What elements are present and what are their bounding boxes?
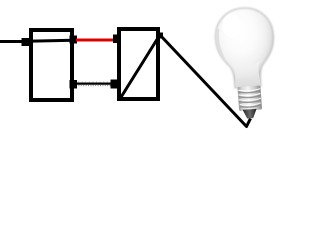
component box B2 xyxy=(119,29,158,99)
wire: hatched wire T4-T5 xyxy=(75,82,113,86)
glass rim xyxy=(214,6,277,89)
glass neck shading xyxy=(231,60,263,88)
terminal T5 (box2 left bottom) xyxy=(111,80,119,89)
wire: left feed wire xyxy=(0,40,24,43)
base tip xyxy=(243,109,258,119)
terminal T6 (box2 top right corner) xyxy=(157,33,163,39)
wire: diagonal to lamp xyxy=(161,36,251,127)
wire: diagonal inside box2 xyxy=(121,36,160,99)
terminal T2 (box1 right top) xyxy=(70,36,78,44)
glass envelope xyxy=(214,6,277,89)
glass left rim shade xyxy=(216,28,226,60)
wire: red wire T2-T3 xyxy=(76,39,115,42)
glass highlight xyxy=(222,13,242,38)
thread ridges xyxy=(238,91,261,108)
lamp LP1 (light bulb photo) xyxy=(214,6,280,120)
terminal T1 (box1 left) xyxy=(22,38,30,46)
screw base xyxy=(237,86,262,112)
terminal T4 (box1 right bottom) xyxy=(70,80,78,89)
wire: through box1 top xyxy=(26,40,73,41)
terminal T3 (box2 left top) xyxy=(113,35,120,44)
component box B1 xyxy=(31,30,72,100)
